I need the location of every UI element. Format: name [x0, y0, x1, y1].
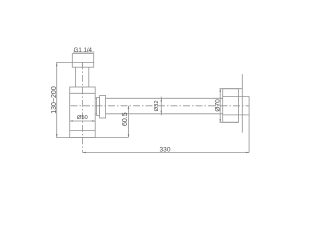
svg-text:Ø32: Ø32 — [154, 100, 160, 111]
top nut mid line + left extension line to 130~200 dimension — [56, 61, 94, 63]
arrow 130~200 up — [56, 63, 58, 66]
arrow 330 right — [246, 152, 249, 154]
vertical centerline — [82, 62, 84, 152]
bottle top cap line — [70, 92, 96, 94]
svg-text:330: 330 — [159, 146, 170, 153]
inlet tube left wall — [75, 67, 77, 87]
svg-text:130~200: 130~200 — [51, 86, 58, 114]
dimension 60.5 line — [128, 106, 130, 138]
top nut lower divider — [82, 62, 84, 67]
dimension O50 line — [70, 120, 96, 122]
svg-text:60.5: 60.5 — [122, 112, 129, 126]
arrow O32 up — [161, 98, 163, 101]
arrow 330 left — [83, 152, 86, 154]
svg-text:Ø50: Ø50 — [77, 115, 88, 121]
dimension O32 line — [160, 97, 162, 116]
arrow O50 right — [92, 120, 95, 122]
arrow 130~200 down — [56, 134, 58, 137]
arrow 60.5 up — [128, 106, 130, 109]
dimension 330 line — [83, 152, 250, 154]
pipe bottom wall — [106, 113, 223, 115]
O70 top extension line — [220, 88, 243, 90]
arrow 60.5 down — [128, 134, 130, 137]
bottle body — [70, 87, 96, 137]
outlet collar top — [95, 97, 96, 99]
arrow O70 up — [219, 89, 221, 92]
bottle bottom cap line — [70, 129, 96, 131]
outlet nut — [100, 96, 106, 119]
dimension 130~200 line — [56, 63, 58, 137]
O70 bottom extension line — [220, 121, 239, 123]
top nut G1 1/4 underline — [73, 51, 95, 53]
horizontal centerline — [71, 105, 250, 107]
top nut body — [72, 54, 93, 68]
sleeve end + 330 right extension line — [248, 96, 250, 152]
arrow O70 down — [219, 119, 221, 122]
pipe top wall — [106, 97, 223, 99]
inlet tube right wall — [88, 67, 90, 87]
bottom shared extension line — [56, 136, 129, 138]
sleeve bottom line — [223, 114, 249, 116]
arrow O50 left — [70, 120, 73, 122]
arrow O32 down — [161, 111, 163, 114]
wall line — [241, 74, 243, 133]
svg-text:G1 1/4: G1 1/4 — [74, 47, 93, 54]
svg-text:Ø70: Ø70 — [215, 99, 222, 112]
outlet collar bottom — [95, 113, 96, 115]
dimension O70 line — [219, 89, 221, 123]
wall flange — [223, 89, 239, 123]
outlet washer — [97, 98, 100, 116]
sleeve top line — [223, 95, 249, 97]
